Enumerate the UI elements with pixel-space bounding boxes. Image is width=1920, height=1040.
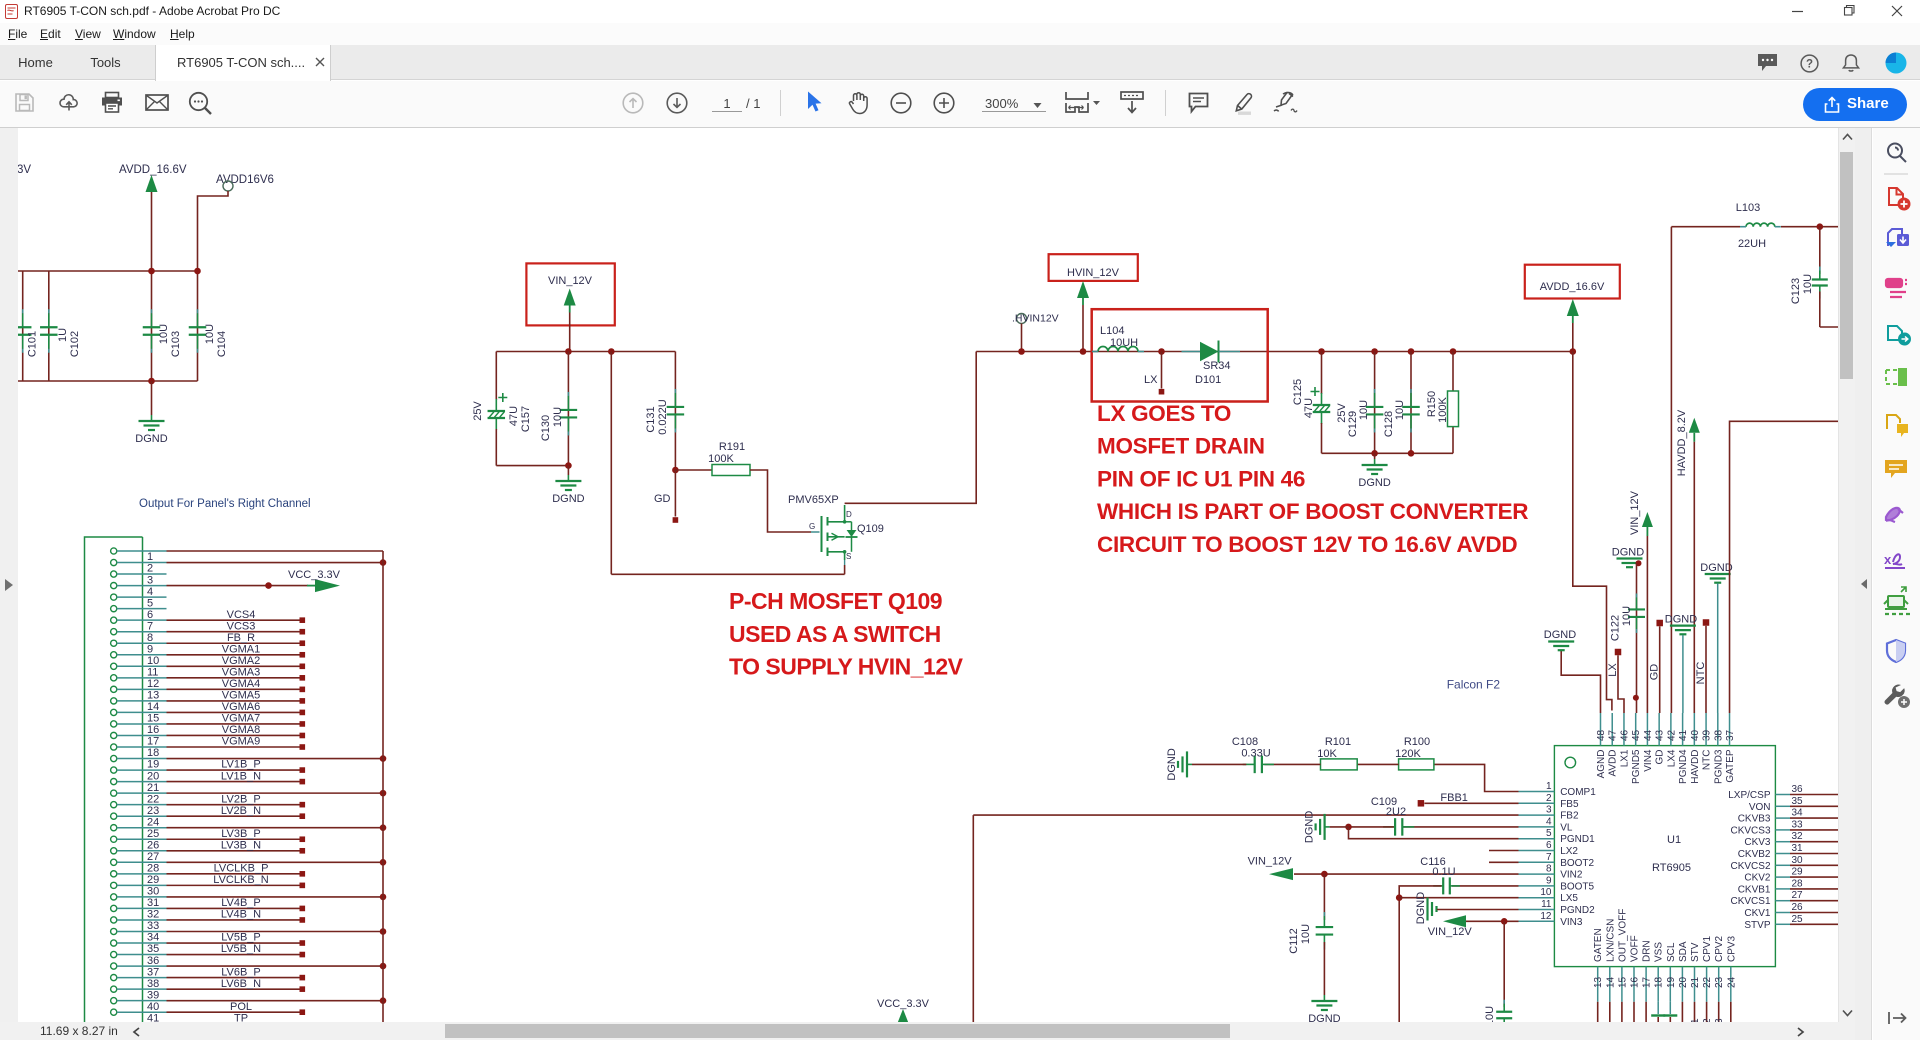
svg-text:DGND: DGND bbox=[1612, 547, 1644, 559]
svg-text:14: 14 bbox=[1605, 976, 1616, 988]
svg-text:8: 8 bbox=[147, 632, 153, 644]
svg-text:29: 29 bbox=[1792, 867, 1804, 878]
svg-text:VIN4: VIN4 bbox=[1643, 749, 1654, 772]
svg-text:12: 12 bbox=[147, 678, 159, 690]
svg-text:DGND: DGND bbox=[1544, 629, 1576, 641]
svg-text:100K: 100K bbox=[1437, 396, 1449, 422]
svg-text:7: 7 bbox=[147, 620, 153, 632]
svg-text:C122: C122 bbox=[1609, 615, 1621, 641]
svg-text:40: 40 bbox=[147, 1001, 159, 1013]
svg-text:21: 21 bbox=[1690, 976, 1701, 988]
svg-text:NTC: NTC bbox=[1702, 750, 1713, 771]
svg-text:VGMA9: VGMA9 bbox=[222, 736, 261, 748]
svg-text:P-CH MOSFET Q109: P-CH MOSFET Q109 bbox=[729, 588, 942, 614]
svg-text:CKVB2: CKVB2 bbox=[1738, 849, 1771, 860]
svg-text:VL: VL bbox=[1560, 822, 1573, 833]
svg-text:C104: C104 bbox=[216, 331, 228, 357]
svg-text:VIN_12V: VIN_12V bbox=[1629, 490, 1641, 535]
svg-text:CIRCUIT TO BOOST 12V TO 16.6V: CIRCUIT TO BOOST 12V TO 16.6V AVDD bbox=[1097, 532, 1517, 557]
svg-text:VCC_3.3V: VCC_3.3V bbox=[877, 998, 930, 1010]
svg-text:CKVB3: CKVB3 bbox=[1738, 814, 1771, 825]
svg-text:VIN_12V: VIN_12V bbox=[1428, 926, 1473, 938]
svg-text:CPV1: CPV1 bbox=[1702, 935, 1713, 962]
svg-text:POL: POL bbox=[230, 1001, 252, 1013]
svg-text:VCS4: VCS4 bbox=[227, 609, 256, 621]
svg-text:10: 10 bbox=[147, 655, 159, 667]
svg-text:32: 32 bbox=[147, 909, 159, 921]
svg-text:5: 5 bbox=[1546, 828, 1552, 839]
svg-text:26: 26 bbox=[147, 839, 159, 851]
svg-text:DGND: DGND bbox=[1358, 477, 1390, 489]
svg-text:LV4B_P: LV4B_P bbox=[221, 897, 261, 909]
svg-text:14: 14 bbox=[147, 701, 159, 713]
svg-text:VGMA1: VGMA1 bbox=[222, 643, 261, 655]
svg-text:C112: C112 bbox=[1288, 928, 1300, 953]
svg-text:7: 7 bbox=[1546, 852, 1552, 863]
svg-text:Output For Panel's Right Chann: Output For Panel's Right Channel bbox=[139, 498, 311, 510]
svg-text:36: 36 bbox=[1792, 784, 1804, 795]
svg-text:C130: C130 bbox=[540, 415, 552, 441]
svg-text:TO SUPPLY HVIN_12V: TO SUPPLY HVIN_12V bbox=[729, 654, 964, 680]
svg-text:CKV3: CKV3 bbox=[1744, 837, 1771, 848]
svg-text:10U: 10U bbox=[1358, 400, 1370, 420]
svg-text:VIN2: VIN2 bbox=[1560, 870, 1583, 881]
svg-text:PGND3: PGND3 bbox=[1713, 749, 1724, 784]
svg-text:LX5: LX5 bbox=[1560, 893, 1578, 904]
svg-text:LX4: LX4 bbox=[1666, 749, 1677, 767]
svg-text:LV3B_P: LV3B_P bbox=[221, 828, 261, 840]
svg-text:38: 38 bbox=[1713, 729, 1724, 741]
svg-text:VGMA5: VGMA5 bbox=[222, 690, 261, 702]
svg-text:VGMA3: VGMA3 bbox=[222, 667, 261, 679]
svg-text:37: 37 bbox=[147, 966, 159, 978]
svg-text:VIN_12V: VIN_12V bbox=[548, 275, 593, 287]
svg-text:STV: STV bbox=[1690, 942, 1701, 962]
svg-text:10UH: 10UH bbox=[1110, 337, 1138, 349]
svg-text:27: 27 bbox=[1792, 890, 1804, 901]
svg-text:VCC_3.3V: VCC_3.3V bbox=[288, 569, 341, 581]
svg-text:30: 30 bbox=[1792, 855, 1804, 866]
svg-text:DGND: DGND bbox=[1700, 562, 1732, 574]
svg-text:27: 27 bbox=[147, 851, 159, 863]
svg-text:LXN/CSN: LXN/CSN bbox=[1605, 919, 1616, 962]
svg-text:RT6905: RT6905 bbox=[1652, 862, 1691, 874]
svg-text:3V: 3V bbox=[17, 164, 31, 176]
svg-text:25: 25 bbox=[147, 828, 159, 840]
svg-text:FB_R: FB_R bbox=[227, 632, 255, 644]
svg-text:CPV2: CPV2 bbox=[1714, 935, 1725, 962]
svg-text:15: 15 bbox=[147, 713, 159, 725]
svg-text:SCL: SCL bbox=[1666, 942, 1677, 962]
svg-text:GATEP: GATEP bbox=[1725, 749, 1736, 782]
svg-text:VOFF: VOFF bbox=[1630, 935, 1641, 962]
svg-text:1: 1 bbox=[147, 551, 153, 563]
svg-text:LV1B_N: LV1B_N bbox=[221, 770, 261, 782]
svg-text:VGMA6: VGMA6 bbox=[222, 701, 261, 713]
svg-text:R191: R191 bbox=[719, 441, 745, 453]
svg-text:LV5B_N: LV5B_N bbox=[221, 943, 261, 955]
svg-text:LV4B_N: LV4B_N bbox=[221, 909, 261, 921]
svg-text:GD: GD bbox=[654, 493, 671, 505]
svg-text:AVDD_16.6V: AVDD_16.6V bbox=[119, 164, 187, 176]
svg-text:24: 24 bbox=[1726, 976, 1737, 988]
svg-text:10U: 10U bbox=[1394, 400, 1406, 420]
svg-text:DGND: DGND bbox=[1304, 811, 1316, 843]
svg-text:LVCLKB_P: LVCLKB_P bbox=[214, 863, 269, 875]
svg-text:43: 43 bbox=[1655, 729, 1666, 741]
svg-text:1U: 1U bbox=[57, 328, 69, 342]
svg-text:12: 12 bbox=[1540, 911, 1552, 922]
svg-text:10U: 10U bbox=[1802, 274, 1814, 294]
svg-text:10U: 10U bbox=[1300, 924, 1312, 944]
svg-text:SDA: SDA bbox=[1678, 941, 1689, 962]
svg-text:VGMA4: VGMA4 bbox=[222, 678, 261, 690]
svg-text:17: 17 bbox=[1642, 976, 1653, 988]
svg-text:31: 31 bbox=[1792, 843, 1804, 854]
svg-text:BOOT2: BOOT2 bbox=[1560, 858, 1594, 869]
svg-text:9: 9 bbox=[147, 643, 153, 655]
svg-text:AVDD16V6: AVDD16V6 bbox=[216, 174, 274, 186]
svg-text:0.022U: 0.022U bbox=[657, 399, 669, 435]
svg-text:120K: 120K bbox=[1395, 748, 1421, 760]
svg-text:22: 22 bbox=[1702, 976, 1713, 988]
svg-text:100K: 100K bbox=[708, 453, 734, 465]
svg-text:10U: 10U bbox=[158, 324, 170, 344]
svg-text:37: 37 bbox=[1725, 729, 1736, 741]
svg-text:L103: L103 bbox=[1736, 202, 1760, 214]
svg-text:NTC: NTC bbox=[1695, 662, 1707, 685]
svg-text:VGMA7: VGMA7 bbox=[222, 713, 261, 725]
svg-text:HAVDD_8.2V: HAVDD_8.2V bbox=[1676, 409, 1688, 476]
svg-text:10: 10 bbox=[1540, 887, 1552, 898]
svg-text:LX: LX bbox=[1144, 374, 1158, 386]
svg-text:LX2: LX2 bbox=[1560, 846, 1578, 857]
svg-text:LV3B_N: LV3B_N bbox=[221, 839, 261, 851]
svg-text:9: 9 bbox=[1546, 875, 1552, 886]
svg-text:HAVDD: HAVDD bbox=[1690, 750, 1701, 784]
svg-text:11: 11 bbox=[1541, 899, 1552, 910]
svg-text:R100: R100 bbox=[1404, 736, 1430, 748]
svg-text:LX1: LX1 bbox=[1619, 749, 1630, 767]
svg-text:25V: 25V bbox=[472, 401, 484, 421]
svg-text:BOOT5: BOOT5 bbox=[1560, 881, 1594, 892]
svg-text:HVIN_12V: HVIN_12V bbox=[1067, 267, 1120, 279]
svg-text:26: 26 bbox=[1792, 902, 1804, 913]
svg-text:?: ? bbox=[1806, 59, 1813, 71]
svg-text:C157: C157 bbox=[520, 406, 532, 432]
svg-text:AVDD_16.6V: AVDD_16.6V bbox=[1540, 281, 1605, 293]
svg-text:PGND4: PGND4 bbox=[1678, 749, 1689, 784]
svg-text:AGND: AGND bbox=[1596, 750, 1607, 779]
svg-text:C101: C101 bbox=[26, 331, 38, 357]
svg-text:6: 6 bbox=[1546, 840, 1552, 851]
svg-text:CKVCS3: CKVCS3 bbox=[1730, 825, 1770, 836]
svg-text:10U: 10U bbox=[204, 324, 216, 344]
svg-text:2U2: 2U2 bbox=[1386, 806, 1406, 818]
svg-text:DRN: DRN bbox=[1642, 940, 1653, 962]
svg-text:15: 15 bbox=[1617, 976, 1628, 988]
svg-text:4: 4 bbox=[147, 586, 153, 598]
svg-text:U1: U1 bbox=[1667, 834, 1681, 846]
svg-text:PIN OF IC U1 PIN 46: PIN OF IC U1 PIN 46 bbox=[1097, 466, 1305, 491]
svg-text:31: 31 bbox=[147, 897, 159, 909]
svg-text:FB2: FB2 bbox=[1560, 811, 1579, 822]
svg-text:1: 1 bbox=[1546, 781, 1552, 792]
svg-text:46: 46 bbox=[1619, 729, 1630, 741]
svg-text:VON: VON bbox=[1749, 802, 1771, 813]
svg-text:38: 38 bbox=[147, 978, 159, 990]
svg-text:4: 4 bbox=[1546, 816, 1552, 827]
svg-text:8: 8 bbox=[1546, 864, 1552, 875]
svg-text:D: D bbox=[846, 510, 852, 519]
svg-text:44: 44 bbox=[1643, 729, 1654, 741]
svg-text:20: 20 bbox=[147, 770, 159, 782]
svg-text:39: 39 bbox=[147, 989, 159, 1001]
svg-text:STVP: STVP bbox=[1744, 920, 1770, 931]
svg-text:3: 3 bbox=[147, 574, 153, 586]
svg-text:2: 2 bbox=[1546, 793, 1552, 804]
svg-text:35: 35 bbox=[147, 943, 159, 955]
svg-text:SR34: SR34 bbox=[1203, 360, 1231, 372]
svg-text:11: 11 bbox=[147, 667, 158, 679]
svg-text:18: 18 bbox=[1654, 976, 1665, 988]
svg-text:20: 20 bbox=[1678, 976, 1689, 988]
svg-text:42: 42 bbox=[1666, 729, 1677, 741]
svg-text:PGND2: PGND2 bbox=[1560, 905, 1595, 916]
svg-text:Q109: Q109 bbox=[857, 523, 884, 535]
svg-text:18: 18 bbox=[147, 747, 159, 759]
svg-text:x: x bbox=[1884, 552, 1892, 567]
svg-text:CKVB1: CKVB1 bbox=[1738, 884, 1771, 895]
svg-text:23: 23 bbox=[147, 805, 159, 817]
svg-text:DGND: DGND bbox=[1415, 892, 1427, 924]
svg-text:VIN3: VIN3 bbox=[1560, 917, 1583, 928]
svg-text:VSS: VSS bbox=[1654, 942, 1665, 962]
svg-text:S: S bbox=[846, 552, 851, 561]
svg-text:C131: C131 bbox=[645, 406, 657, 432]
svg-text:47U: 47U bbox=[1303, 398, 1315, 418]
svg-text:48: 48 bbox=[1596, 729, 1607, 741]
svg-text:10U: 10U bbox=[1621, 606, 1633, 626]
svg-text:32: 32 bbox=[1792, 831, 1804, 842]
svg-text:.HVIN12V: .HVIN12V bbox=[1012, 313, 1059, 325]
svg-text:6: 6 bbox=[147, 609, 153, 621]
svg-text:G: G bbox=[809, 522, 815, 531]
svg-text:0.33U: 0.33U bbox=[1241, 748, 1270, 760]
svg-text:35: 35 bbox=[1792, 796, 1804, 807]
svg-text:0.1U: 0.1U bbox=[1432, 866, 1455, 878]
svg-text:30: 30 bbox=[147, 886, 159, 898]
svg-text:47: 47 bbox=[1608, 729, 1619, 741]
svg-text:VIN_12V: VIN_12V bbox=[1248, 856, 1293, 868]
svg-text:LVCLKB_N: LVCLKB_N bbox=[213, 874, 268, 886]
svg-text:GD: GD bbox=[1655, 750, 1666, 765]
svg-text:CKV1: CKV1 bbox=[1744, 908, 1771, 919]
svg-text:41: 41 bbox=[1678, 729, 1689, 741]
svg-text:5: 5 bbox=[147, 597, 153, 609]
svg-text:CKVCS1: CKVCS1 bbox=[1730, 896, 1770, 907]
svg-text:LV6B_N: LV6B_N bbox=[221, 978, 261, 990]
svg-text:Falcon F2: Falcon F2 bbox=[1447, 678, 1501, 692]
svg-text:LV1B_P: LV1B_P bbox=[221, 759, 261, 771]
svg-text:LV2B_P: LV2B_P bbox=[221, 793, 261, 805]
svg-text:25: 25 bbox=[1792, 914, 1804, 925]
svg-text:13: 13 bbox=[1593, 976, 1604, 988]
svg-text:OUT_VOFF: OUT_VOFF bbox=[1617, 909, 1628, 962]
svg-text:10K: 10K bbox=[1317, 748, 1337, 760]
svg-text:40: 40 bbox=[1690, 729, 1701, 741]
svg-text:MOSFET DRAIN: MOSFET DRAIN bbox=[1097, 434, 1265, 459]
svg-text:45: 45 bbox=[1631, 729, 1642, 741]
svg-text:19: 19 bbox=[1666, 976, 1677, 988]
svg-text:34: 34 bbox=[1792, 808, 1804, 819]
svg-text:USED AS A SWITCH: USED AS A SWITCH bbox=[729, 621, 941, 647]
svg-text:33: 33 bbox=[1792, 819, 1804, 830]
svg-text:22UH: 22UH bbox=[1738, 238, 1766, 250]
svg-text:FBB1: FBB1 bbox=[1440, 792, 1468, 804]
svg-text:28: 28 bbox=[1792, 878, 1804, 889]
svg-text:36: 36 bbox=[147, 955, 159, 967]
svg-text:34: 34 bbox=[147, 932, 159, 944]
svg-text:24: 24 bbox=[147, 816, 159, 828]
svg-text:R101: R101 bbox=[1325, 736, 1351, 748]
svg-text:39: 39 bbox=[1702, 729, 1713, 741]
svg-text:13: 13 bbox=[147, 690, 159, 702]
svg-text:17: 17 bbox=[147, 736, 159, 748]
svg-text:DGND: DGND bbox=[552, 493, 584, 505]
svg-text:AVDD: AVDD bbox=[1608, 750, 1619, 777]
svg-text:LX GOES TO: LX GOES TO bbox=[1097, 401, 1231, 426]
svg-text:19: 19 bbox=[147, 759, 159, 771]
svg-text:L104: L104 bbox=[1100, 325, 1124, 337]
svg-text:C102: C102 bbox=[69, 331, 81, 357]
svg-text:10U: 10U bbox=[552, 407, 564, 427]
svg-text:CKV2: CKV2 bbox=[1744, 873, 1771, 884]
svg-text:PGND1: PGND1 bbox=[1560, 834, 1595, 845]
svg-text:C108: C108 bbox=[1232, 736, 1258, 748]
svg-text:LV5B_P: LV5B_P bbox=[221, 932, 261, 944]
svg-text:28: 28 bbox=[147, 863, 159, 875]
svg-text:LV2B_N: LV2B_N bbox=[221, 805, 261, 817]
svg-text:LX: LX bbox=[1607, 663, 1619, 677]
svg-text:DGND: DGND bbox=[1665, 614, 1697, 626]
svg-text:DGND: DGND bbox=[135, 433, 167, 445]
svg-text:VGMA8: VGMA8 bbox=[222, 724, 261, 736]
svg-text:2: 2 bbox=[147, 563, 153, 575]
svg-text:FB5: FB5 bbox=[1560, 799, 1579, 810]
svg-text:22: 22 bbox=[147, 793, 159, 805]
svg-text:33: 33 bbox=[147, 920, 159, 932]
svg-text:LXP/CSP: LXP/CSP bbox=[1728, 790, 1771, 801]
svg-text:3: 3 bbox=[1546, 805, 1552, 816]
svg-text:GD: GD bbox=[1648, 664, 1660, 681]
svg-text:47U: 47U bbox=[508, 406, 520, 426]
svg-text:LV6B_P: LV6B_P bbox=[221, 966, 261, 978]
svg-text:21: 21 bbox=[147, 782, 159, 794]
svg-text:DGND: DGND bbox=[1166, 748, 1178, 780]
svg-text:PMV65XP: PMV65XP bbox=[788, 494, 839, 506]
svg-text:PGND5: PGND5 bbox=[1631, 749, 1642, 784]
svg-text:C103: C103 bbox=[170, 331, 182, 357]
svg-text:29: 29 bbox=[147, 874, 159, 886]
svg-text:16: 16 bbox=[1630, 976, 1641, 988]
svg-text:16: 16 bbox=[147, 724, 159, 736]
svg-text:COMP1: COMP1 bbox=[1560, 787, 1596, 798]
svg-text:C123: C123 bbox=[1790, 278, 1802, 304]
svg-text:23: 23 bbox=[1714, 976, 1725, 988]
svg-text:WHICH IS PART OF BOOST CONVERT: WHICH IS PART OF BOOST CONVERTER bbox=[1097, 499, 1528, 524]
svg-text:CKVCS2: CKVCS2 bbox=[1730, 861, 1770, 872]
svg-text:CPV3: CPV3 bbox=[1726, 935, 1737, 962]
svg-text:GATEN: GATEN bbox=[1593, 928, 1604, 962]
svg-text:D101: D101 bbox=[1195, 374, 1221, 386]
svg-text:VCS3: VCS3 bbox=[227, 620, 256, 632]
svg-text:VGMA2: VGMA2 bbox=[222, 655, 261, 667]
